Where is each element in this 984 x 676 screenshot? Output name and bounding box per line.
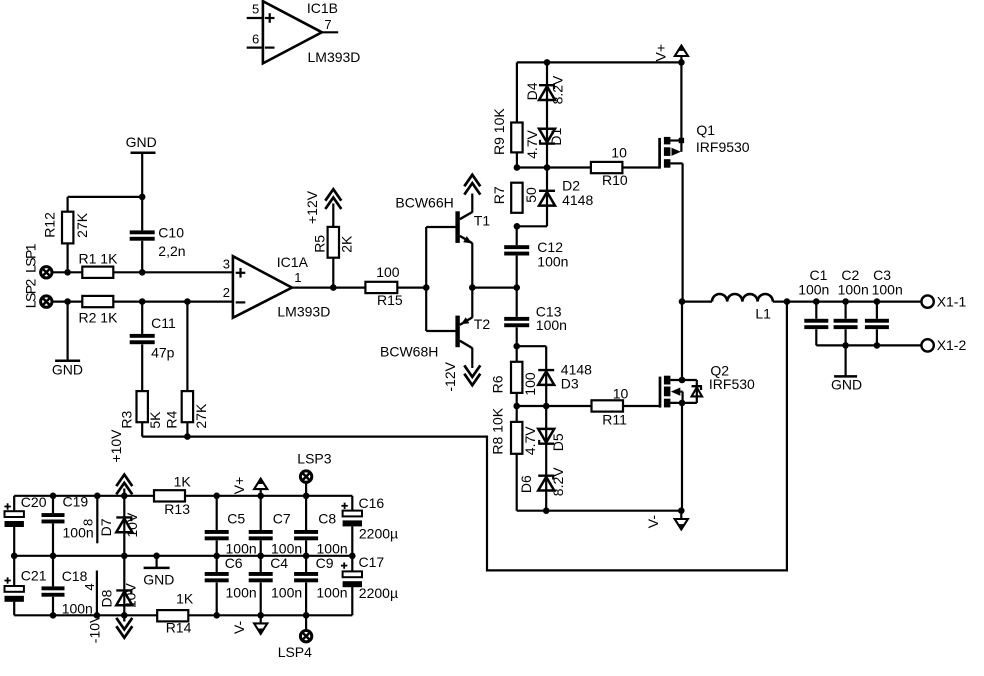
- svg-text:LSP1: LSP1: [22, 243, 38, 273]
- svg-text:1K: 1K: [176, 591, 194, 607]
- svg-text:8: 8: [81, 519, 96, 526]
- capacitor C1: [798, 267, 829, 345]
- junction C19-railtop: [50, 493, 57, 500]
- capacitor C21: [4, 556, 46, 616]
- svg-text:10V: 10V: [124, 512, 140, 538]
- wire Q1 drain: [681, 163, 683, 301]
- junction R12top-gnd: [139, 194, 146, 201]
- svg-text:BCW66H: BCW66H: [395, 195, 453, 211]
- svg-text:X1-2: X1-2: [937, 337, 967, 353]
- svg-text:R6: R6: [490, 375, 506, 393]
- svg-text:X1-1: X1-1: [937, 294, 967, 310]
- svg-text:V-: V-: [645, 515, 661, 529]
- op-amp IC1B: [263, 0, 361, 65]
- junction C2 bottom: [842, 342, 849, 349]
- capacitor C18: [42, 556, 93, 617]
- wire pin2 net: [52, 301, 263, 303]
- svg-text:5K: 5K: [147, 411, 163, 429]
- junction C11-pin2: [139, 298, 146, 305]
- wire T2 base: [426, 330, 455, 332]
- junction R5-out: [330, 284, 337, 291]
- svg-text:+10V: +10V: [108, 429, 124, 463]
- svg-text:27K: 27K: [74, 212, 90, 238]
- junction C7-railmid: [257, 553, 264, 560]
- capacitor C5: [205, 496, 257, 557]
- svg-text:D6: D6: [518, 475, 534, 493]
- svg-text:5: 5: [252, 2, 259, 17]
- svg-text:100: 100: [376, 264, 400, 280]
- resistor R1: [79, 251, 119, 278]
- supply V- bottom: [645, 511, 688, 530]
- svg-text:C19: C19: [63, 493, 89, 509]
- pin 5 stub IC1B: [247, 2, 263, 18]
- ground GND power: [143, 556, 174, 588]
- capacitor C7: [249, 496, 302, 557]
- svg-text:V-: V-: [231, 620, 247, 634]
- svg-text:IRF530: IRF530: [709, 376, 755, 392]
- svg-text:R11: R11: [602, 411, 627, 427]
- transistor Q2: [660, 363, 755, 408]
- svg-text:C12: C12: [537, 239, 563, 255]
- capacitor C12: [504, 239, 568, 270]
- pin 3 label: [223, 256, 230, 271]
- wire +10V rail: [14, 495, 352, 497]
- resistor R5: [312, 227, 355, 258]
- capacitor C16: [341, 495, 398, 556]
- svg-text:10: 10: [611, 144, 627, 160]
- wire C12-C13 column: [516, 226, 518, 346]
- svg-text:C17: C17: [359, 554, 385, 570]
- svg-text:3: 3: [223, 256, 230, 271]
- junction C3 top: [874, 298, 881, 305]
- svg-text:1: 1: [294, 270, 301, 285]
- wire R12 leads: [66, 197, 68, 272]
- wire V+ rail top: [517, 61, 682, 63]
- resistor R8: [490, 407, 523, 454]
- junction C2 top: [842, 298, 849, 305]
- junction feedback tap: [784, 298, 791, 305]
- junction D7-railtop: [121, 493, 128, 500]
- svg-text:IRF9530: IRF9530: [696, 139, 750, 155]
- capacitor C9: [294, 555, 347, 615]
- diode D5 zener: [522, 426, 566, 455]
- wire out to C-column: [472, 287, 516, 289]
- svg-text:D7: D7: [98, 518, 114, 536]
- wire L1 to X1-1: [773, 301, 922, 303]
- svg-text:R4: R4: [163, 410, 179, 428]
- svg-text:C4: C4: [270, 555, 288, 571]
- junction C10-pin3: [139, 269, 146, 276]
- junction base-col: [423, 284, 430, 291]
- diode D1 zener: [524, 127, 564, 158]
- svg-text:2200µ: 2200µ: [359, 526, 398, 542]
- capacitor C3: [865, 267, 903, 345]
- svg-text:T1: T1: [474, 212, 491, 228]
- junction C3 bottom: [874, 342, 881, 349]
- svg-text:LSP2: LSP2: [22, 279, 38, 309]
- svg-text:C7: C7: [273, 510, 291, 526]
- junction Q1-Q2 out: [679, 298, 686, 305]
- svg-text:R13: R13: [164, 501, 190, 517]
- junction R6-R8: [513, 403, 520, 410]
- wire out row: [682, 301, 712, 303]
- svg-text:D1: D1: [548, 127, 564, 145]
- svg-text:100n: 100n: [872, 281, 903, 297]
- diode D6 zener: [518, 467, 566, 496]
- svg-text:8.2V: 8.2V: [550, 75, 566, 104]
- svg-text:-10V: -10V: [86, 613, 102, 643]
- junction R4-feedback: [184, 433, 191, 440]
- terminal LSP4: [278, 615, 312, 660]
- svg-text:C9: C9: [316, 555, 334, 571]
- svg-text:IC1B: IC1B: [307, 0, 338, 16]
- svg-text:C18: C18: [62, 568, 88, 584]
- junction C8-railtop: [303, 493, 310, 500]
- svg-text:D4: D4: [524, 82, 540, 100]
- svg-text:C11: C11: [151, 315, 176, 331]
- svg-text:100n: 100n: [271, 585, 302, 601]
- svg-text:LSP3: LSP3: [297, 451, 331, 467]
- capacitor C17: [341, 554, 398, 615]
- junction C18-railbot: [50, 612, 57, 619]
- wire D4-D1 column: [546, 62, 548, 167]
- svg-text:4: 4: [82, 583, 97, 590]
- diode Q2 body: [692, 386, 703, 396]
- wire R4 column: [186, 302, 188, 437]
- junction C4-railbot: [257, 612, 264, 619]
- wire T2 collector: [471, 348, 473, 368]
- pin 8 stub: [81, 496, 98, 544]
- junction D4-rail: [544, 59, 551, 66]
- supply +12V T1: [464, 175, 480, 197]
- junction R9-R7: [514, 164, 521, 171]
- capacitor C4: [249, 555, 302, 615]
- diode D8 zener: [98, 583, 138, 609]
- transistor Q1: [660, 122, 750, 168]
- svg-text:100n: 100n: [226, 585, 257, 601]
- wire D2 column: [517, 168, 547, 227]
- resistor R4: [163, 391, 209, 429]
- resistor R9: [491, 108, 523, 155]
- supply -10V: [86, 613, 132, 643]
- junction C1 top: [813, 298, 820, 305]
- junction Q2-Vrail: [678, 507, 685, 514]
- supply -12V T2: [442, 361, 480, 391]
- svg-text:100n: 100n: [798, 281, 829, 297]
- svg-text:R12: R12: [41, 212, 57, 238]
- diode D7 zener: [98, 512, 140, 538]
- svg-text:LM393D: LM393D: [308, 49, 361, 65]
- capacitor C19: [42, 493, 94, 555]
- resistor R3: [119, 391, 163, 429]
- svg-text:7: 7: [324, 17, 331, 32]
- junction pin8-railtop: [94, 493, 101, 500]
- svg-text:R5: R5: [312, 235, 328, 253]
- resistor R15: [365, 264, 402, 308]
- svg-text:IC1A: IC1A: [277, 254, 309, 270]
- supply V+ top: [652, 44, 688, 62]
- svg-text:100n: 100n: [536, 317, 567, 333]
- wire emitter column: [471, 243, 473, 318]
- capacitor C8: [294, 496, 348, 557]
- wire R5 column: [332, 204, 334, 288]
- wire D3-D5-D6 column: [545, 346, 547, 511]
- diode D2: [539, 177, 593, 208]
- resistor R14: [157, 591, 194, 636]
- capacitor C6: [205, 555, 257, 615]
- svg-text:C10: C10: [158, 225, 184, 241]
- ground GND input: [52, 302, 83, 378]
- svg-text:GND: GND: [143, 572, 174, 588]
- junction D8-railbot: [121, 612, 128, 619]
- resistor R7: [491, 183, 539, 213]
- svg-text:4.7V: 4.7V: [524, 129, 540, 158]
- svg-text:100: 100: [522, 372, 538, 396]
- junction R12-pin3: [64, 269, 71, 276]
- svg-text:2,2n: 2,2n: [158, 243, 185, 259]
- wire gate1 row: [517, 166, 660, 168]
- svg-text:GND: GND: [52, 361, 83, 377]
- svg-text:D5: D5: [550, 433, 566, 451]
- resistor R13: [154, 474, 191, 518]
- junction D1-D2: [544, 164, 551, 171]
- diode D3: [538, 361, 592, 391]
- svg-text:47p: 47p: [151, 344, 175, 360]
- junction R7-C12: [514, 223, 521, 230]
- svg-text:R8 10K: R8 10K: [490, 407, 506, 454]
- wire D7 lead: [123, 496, 125, 556]
- svg-text:LM393D: LM393D: [277, 303, 330, 319]
- junction Q2 source: [679, 400, 686, 407]
- svg-text:27K: 27K: [193, 403, 209, 429]
- junction C5-railtop: [213, 493, 220, 500]
- terminal LSP2: [22, 279, 52, 309]
- svg-text:10: 10: [613, 386, 629, 402]
- junction C7-railtop: [257, 493, 264, 500]
- svg-text:L1: L1: [755, 306, 771, 322]
- wire IC1A out: [292, 287, 426, 289]
- resistor R6: [490, 362, 538, 396]
- resistor R2: [79, 296, 119, 326]
- wire base column: [425, 227, 427, 331]
- svg-text:D2: D2: [562, 177, 580, 193]
- wire node-D3: [517, 345, 547, 347]
- wire pin3 net: [52, 271, 263, 273]
- wire R9 column: [516, 62, 518, 167]
- supply +12V R5: [304, 189, 341, 224]
- terminal X1-2: [921, 337, 966, 353]
- junction C16-railmid: [349, 553, 356, 560]
- svg-text:R3: R3: [119, 410, 135, 428]
- capacitor C10: [130, 225, 186, 259]
- terminal X1-1: [921, 294, 966, 310]
- wire V- rail: [517, 510, 682, 512]
- capacitor C20: [4, 494, 46, 556]
- wire Q1 source: [680, 62, 682, 138]
- wire C11-R3 column: [141, 302, 143, 437]
- svg-text:GND: GND: [831, 377, 862, 393]
- diode D4 zener: [524, 75, 565, 104]
- svg-text:10V: 10V: [123, 583, 139, 609]
- junction emitters-out: [469, 284, 476, 291]
- junction C5-railmid: [213, 553, 220, 560]
- junction C8-railmid: [303, 553, 310, 560]
- svg-text:-12V: -12V: [442, 361, 458, 391]
- resistor R12: [41, 212, 90, 244]
- junction R4-pin2: [184, 298, 191, 305]
- svg-text:R14: R14: [166, 619, 192, 635]
- junction Q2 drain: [679, 377, 686, 384]
- junction C6-railbot: [213, 612, 220, 619]
- wire feedback net: [142, 302, 787, 571]
- transistor T2: [380, 316, 490, 360]
- wire D8 lead: [123, 556, 125, 616]
- junction D6-Vrail: [543, 507, 550, 514]
- svg-text:+12V: +12V: [304, 190, 320, 224]
- svg-text:C5: C5: [227, 510, 245, 526]
- svg-text:R9 10K: R9 10K: [491, 108, 507, 155]
- svg-text:D8: D8: [98, 589, 114, 607]
- svg-text:2: 2: [223, 285, 230, 300]
- wire -10V rail: [14, 614, 352, 616]
- svg-text:1K: 1K: [174, 474, 192, 490]
- svg-text:6: 6: [252, 31, 259, 46]
- svg-text:100n: 100n: [838, 281, 869, 297]
- svg-text:R2 1K: R2 1K: [79, 309, 119, 325]
- capacitor C2: [834, 267, 869, 345]
- ground GND top: [126, 134, 157, 153]
- svg-text:Q1: Q1: [696, 122, 715, 138]
- resistor R10: [591, 144, 628, 188]
- pin 4 stub: [82, 571, 97, 616]
- wire mid GND rail: [14, 555, 352, 557]
- svg-text:R15: R15: [377, 292, 403, 308]
- junction pin4-railbot: [94, 612, 101, 619]
- svg-text:T2: T2: [474, 316, 491, 332]
- wire T1 collector: [471, 196, 473, 212]
- svg-text:V+: V+: [231, 477, 247, 495]
- svg-text:100n: 100n: [537, 253, 568, 269]
- svg-text:C8: C8: [318, 510, 336, 526]
- supply V+ power: [231, 477, 267, 496]
- wire R6-R8 column: [516, 346, 518, 511]
- svg-text:LSP4: LSP4: [278, 644, 312, 660]
- svg-text:C6: C6: [225, 555, 243, 571]
- svg-text:C20: C20: [21, 494, 47, 510]
- pin 2 label: [223, 285, 230, 300]
- svg-text:50: 50: [523, 187, 539, 203]
- wire Q2 source col: [681, 403, 683, 511]
- svg-text:4.7V: 4.7V: [522, 426, 538, 455]
- svg-text:R10: R10: [602, 172, 628, 188]
- junction out-Ccol: [513, 284, 520, 291]
- wire gate2 row: [517, 405, 660, 407]
- svg-text:D3: D3: [561, 376, 579, 392]
- svg-text:C16: C16: [359, 495, 385, 511]
- pin 7 stub IC1B: [322, 17, 338, 32]
- wire T1 base: [426, 226, 455, 228]
- resistor R11: [592, 386, 629, 428]
- inductor L1: [712, 294, 773, 322]
- junction GND-railmid: [153, 553, 160, 560]
- op-amp IC1A: [233, 254, 330, 320]
- junction D3-D5: [543, 403, 550, 410]
- supply V- power: [231, 615, 267, 634]
- capacitor C13: [504, 303, 567, 333]
- svg-text:2200µ: 2200µ: [359, 585, 398, 601]
- terminal LSP1: [22, 243, 52, 278]
- capacitor C11: [130, 315, 176, 360]
- svg-text:V+: V+: [652, 44, 668, 62]
- svg-text:R7: R7: [491, 186, 507, 204]
- wire R12 top: [68, 196, 143, 198]
- svg-text:R1 1K: R1 1K: [79, 251, 119, 267]
- junction Vplus-rail: [678, 59, 685, 66]
- ground GND output: [831, 345, 862, 392]
- svg-text:C21: C21: [21, 568, 47, 584]
- pin 6 stub IC1B: [247, 31, 263, 47]
- junction D7-railmid: [121, 553, 128, 560]
- svg-text:4148: 4148: [562, 192, 593, 208]
- svg-text:GND: GND: [126, 134, 157, 150]
- wire X1-2 row: [816, 344, 921, 346]
- transistor T1: [395, 195, 490, 244]
- wire Q2 drain col: [681, 302, 683, 380]
- svg-text:BCW68H: BCW68H: [380, 343, 438, 359]
- terminal LSP3: [297, 451, 331, 496]
- wire GND-C10: [141, 153, 143, 273]
- junction C20-railmid: [11, 553, 18, 560]
- junction LSP2-gnd: [64, 298, 71, 305]
- svg-text:8.2V: 8.2V: [550, 467, 566, 496]
- junction C9-railbot: [303, 612, 310, 619]
- junction C13-node: [513, 343, 520, 350]
- junction C19-railmid: [50, 553, 57, 560]
- svg-text:2K: 2K: [338, 235, 354, 253]
- supply +10V: [108, 429, 132, 496]
